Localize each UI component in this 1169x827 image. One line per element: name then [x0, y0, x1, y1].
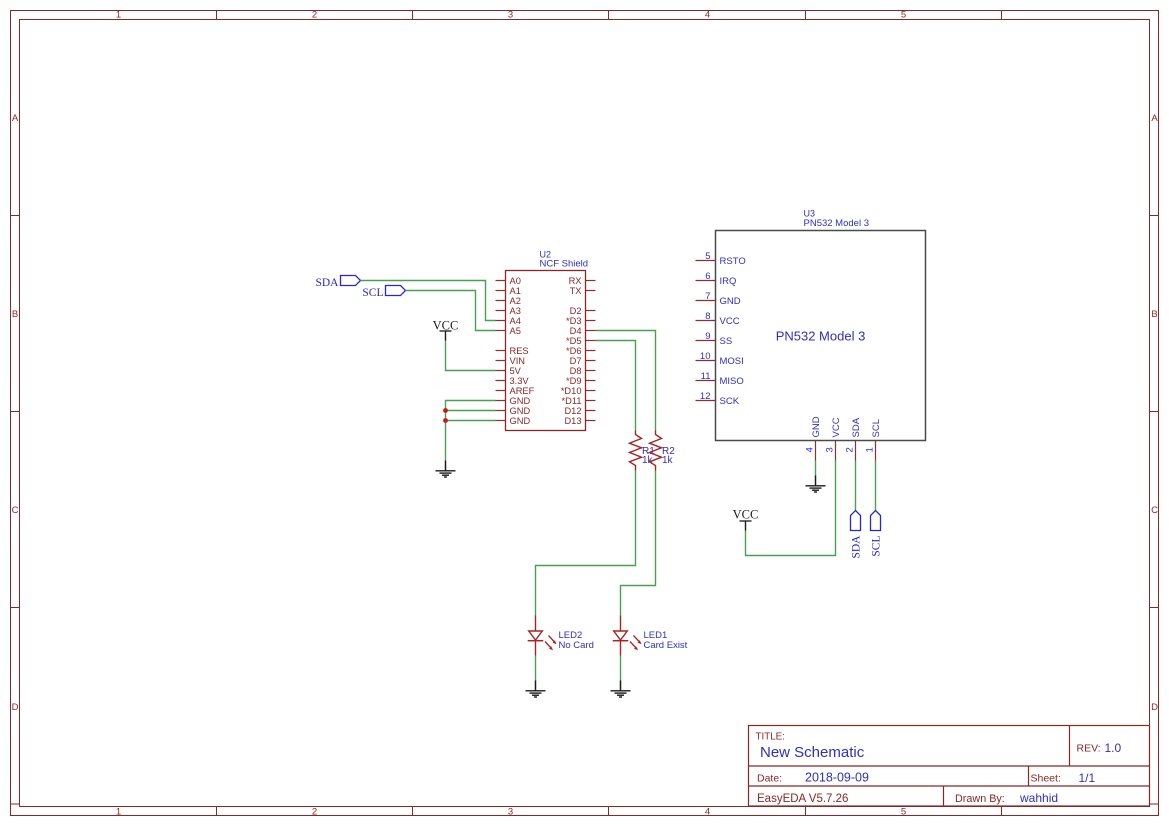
- U2 pin RES (left, y=350): [496, 346, 529, 356]
- svg-text:MISO: MISO: [720, 376, 744, 387]
- U2 pin *D5 (right, y=340): [566, 336, 596, 346]
- svg-text:SDA: SDA: [851, 417, 862, 437]
- wire U3 pin3 VCC to VCC symbol: [746, 461, 836, 556]
- wire U3 pin2 to SDA flag: [855, 461, 857, 511]
- svg-text:VCC: VCC: [733, 508, 759, 522]
- svg-text:3.3V: 3.3V: [510, 376, 530, 386]
- svg-text:D8: D8: [570, 366, 582, 376]
- U2 pin *D3 (right, y=320): [566, 316, 596, 326]
- svg-text:SDA: SDA: [315, 277, 339, 289]
- svg-text:5: 5: [901, 10, 906, 21]
- U2 pin D13 (right, y=420): [564, 416, 595, 426]
- U3 pin 1 SCL (bottom): [865, 419, 883, 460]
- IC U3 PN532 Model 3 body: [716, 209, 926, 441]
- U2 pin *D9 (right, y=380): [566, 376, 596, 386]
- resistor R2 1k: [650, 431, 676, 471]
- U3 pin 4 GND (bottom): [805, 416, 823, 460]
- ground (U3 pin4): [806, 476, 826, 493]
- svg-text:2018-09-09: 2018-09-09: [805, 771, 869, 785]
- wire SCL flag to U2.A5: [406, 291, 496, 331]
- svg-text:Drawn By:: Drawn By:: [955, 793, 1005, 805]
- svg-text:No Card: No Card: [559, 640, 594, 651]
- U2 pin A3 (left, y=310): [496, 306, 521, 316]
- svg-text:12: 12: [700, 391, 711, 402]
- svg-text:A: A: [12, 113, 19, 124]
- U2 pin 5V (left, y=370): [496, 366, 522, 376]
- svg-text:GND: GND: [811, 416, 822, 437]
- LED LED1 (Card Exist): [613, 616, 688, 656]
- svg-text:9: 9: [705, 331, 710, 342]
- svg-text:VCC: VCC: [720, 316, 740, 327]
- power flag VCC (near U2): [433, 319, 459, 341]
- svg-text:A4: A4: [510, 316, 521, 326]
- svg-text:1/1: 1/1: [1079, 771, 1096, 785]
- resistor R1 1k: [630, 431, 656, 471]
- LED LED2 (No Card): [528, 616, 594, 656]
- junction at (445,420): [443, 418, 448, 423]
- svg-text:*D9: *D9: [566, 376, 582, 386]
- svg-text:A2: A2: [510, 296, 521, 306]
- wire U3 pin4 GND to ground: [815, 461, 817, 476]
- svg-text:2: 2: [845, 447, 856, 452]
- U3 pin 6 IRQ: [696, 271, 737, 287]
- svg-text:PN532 Model 3: PN532 Model 3: [804, 218, 869, 229]
- wire U2.GND top to ground bus: [446, 401, 496, 461]
- junction at (445,410): [443, 408, 448, 413]
- svg-text:11: 11: [701, 371, 711, 382]
- svg-text:SCL: SCL: [871, 536, 883, 557]
- U2 pin A5 (left, y=330): [496, 326, 521, 336]
- svg-text:5: 5: [901, 807, 906, 818]
- svg-text:D13: D13: [564, 416, 581, 426]
- svg-text:Date:: Date:: [757, 773, 782, 785]
- svg-text:EasyEDA V5.7.26: EasyEDA V5.7.26: [757, 793, 848, 805]
- svg-text:6: 6: [705, 271, 710, 282]
- net flag SDA (below U3): [851, 511, 863, 559]
- wire LED1 cathode to ground: [620, 656, 622, 681]
- svg-text:SCL: SCL: [871, 419, 882, 437]
- svg-text:IRQ: IRQ: [720, 276, 737, 287]
- U2 pin AREF (left, y=390): [496, 386, 535, 396]
- svg-text:GND: GND: [510, 406, 531, 416]
- U2 pin TX (right, y=290): [570, 286, 596, 296]
- svg-text:*D11: *D11: [562, 396, 582, 406]
- svg-text:TITLE:: TITLE:: [756, 732, 785, 743]
- wire R2 bottom to LED1 anode: [621, 471, 656, 616]
- svg-text:RSTO: RSTO: [720, 256, 746, 267]
- svg-text:4: 4: [805, 447, 816, 452]
- svg-text:5: 5: [705, 251, 710, 262]
- svg-text:SS: SS: [720, 336, 733, 347]
- svg-text:Card Exist: Card Exist: [644, 640, 688, 651]
- svg-text:VCC: VCC: [831, 417, 842, 437]
- svg-text:GND: GND: [510, 416, 531, 426]
- U3 pin 2 SDA (bottom): [845, 417, 863, 460]
- svg-text:7: 7: [705, 291, 710, 302]
- svg-text:5V: 5V: [510, 366, 522, 376]
- U2 pin D7 (right, y=360): [570, 356, 596, 366]
- ground (U2 GND bus): [436, 461, 456, 478]
- U3 pin 8 VCC: [696, 311, 740, 327]
- svg-text:AREF: AREF: [510, 386, 535, 396]
- U2 pin D2 (right, y=310): [570, 306, 596, 316]
- svg-text:TX: TX: [570, 286, 582, 296]
- U3 pin 11 MISO: [696, 371, 744, 387]
- U2 pin A0 (left, y=280): [496, 276, 521, 286]
- svg-text:1: 1: [116, 10, 121, 21]
- svg-text:D4: D4: [570, 326, 582, 336]
- U2 pin GND (left, y=420): [496, 416, 531, 426]
- svg-text:B: B: [1151, 309, 1157, 320]
- U2 pin RX (right, y=280): [569, 276, 596, 286]
- svg-text:NCF Shield: NCF Shield: [540, 259, 589, 270]
- svg-text:D: D: [1151, 702, 1158, 713]
- svg-text:REV:: REV:: [1077, 743, 1101, 755]
- svg-text:10: 10: [700, 351, 711, 362]
- U3 pin 10 MOSI: [696, 351, 744, 367]
- svg-text:Sheet:: Sheet:: [1031, 773, 1061, 785]
- svg-text:2: 2: [312, 807, 317, 818]
- U3 pin 5 RSTO: [696, 251, 746, 267]
- U2 pin *D6 (right, y=350): [566, 346, 596, 356]
- svg-text:SCK: SCK: [720, 396, 740, 407]
- U2 pin GND (left, y=410): [496, 406, 531, 416]
- svg-text:D: D: [12, 702, 19, 713]
- svg-text:4: 4: [705, 10, 710, 21]
- wire LED2 cathode to ground: [535, 656, 537, 681]
- svg-text:*D5: *D5: [566, 336, 582, 346]
- svg-text:A: A: [1151, 113, 1158, 124]
- svg-text:1: 1: [116, 807, 121, 818]
- wire SDA flag to U2.A4: [361, 281, 496, 321]
- wire U2.D4 to R2 top: [596, 331, 656, 431]
- wire VCC to U2.5V: [446, 341, 496, 371]
- wire U2.*D5 to R1 top: [596, 341, 636, 431]
- svg-text:SDA: SDA: [851, 535, 863, 559]
- svg-text:2: 2: [312, 10, 317, 21]
- wire U2.GND mid: [446, 410, 496, 412]
- U2 pin A1 (left, y=290): [496, 286, 521, 296]
- IC U2 NCF Shield body: [506, 250, 589, 431]
- svg-text:RES: RES: [510, 346, 529, 356]
- svg-text:SCL: SCL: [362, 287, 383, 299]
- U2 pin A2 (left, y=300): [496, 296, 521, 306]
- svg-text:A1: A1: [510, 286, 521, 296]
- svg-text:A5: A5: [510, 326, 521, 336]
- net flag SDA (left): [315, 276, 360, 290]
- svg-text:3: 3: [508, 10, 513, 21]
- ground (LED1): [611, 681, 631, 698]
- svg-text:B: B: [12, 309, 18, 320]
- U2 pin *D10 (right, y=390): [561, 386, 596, 396]
- svg-text:PN532 Model 3: PN532 Model 3: [776, 329, 866, 344]
- U3 pin 7 GND: [696, 291, 741, 307]
- svg-text:1k: 1k: [662, 455, 674, 466]
- U3 pin 3 VCC (bottom): [825, 417, 843, 460]
- svg-text:RX: RX: [569, 276, 582, 286]
- svg-text:wahhid: wahhid: [1019, 791, 1058, 805]
- power flag VCC (near U3): [733, 508, 759, 531]
- svg-text:*D3: *D3: [566, 316, 582, 326]
- svg-text:3: 3: [508, 807, 513, 818]
- svg-text:C: C: [12, 505, 19, 516]
- U2 pin VIN (left, y=360): [496, 356, 526, 366]
- svg-text:*D10: *D10: [561, 386, 582, 396]
- svg-text:*D6: *D6: [566, 346, 582, 356]
- U3 pin 12 SCK: [696, 391, 740, 407]
- svg-text:4: 4: [705, 807, 710, 818]
- net flag SCL (below U3): [871, 511, 883, 557]
- svg-text:U3: U3: [804, 209, 816, 219]
- svg-text:D2: D2: [570, 306, 582, 316]
- wire U3 pin1 to SCL flag: [875, 461, 877, 511]
- U2 pin D12 (right, y=410): [564, 406, 595, 416]
- wire R1 bottom to LED2 anode: [536, 471, 636, 616]
- U2 pin D4 (right, y=330): [570, 326, 596, 336]
- wire U2.GND bottom: [446, 420, 496, 422]
- svg-text:GND: GND: [720, 296, 741, 307]
- svg-text:D7: D7: [570, 356, 582, 366]
- svg-text:VIN: VIN: [510, 356, 526, 366]
- svg-text:A0: A0: [510, 276, 521, 286]
- U2 pin GND (left, y=400): [496, 396, 531, 406]
- svg-text:3: 3: [825, 447, 836, 452]
- title block: [749, 726, 1150, 807]
- svg-text:D12: D12: [564, 406, 581, 416]
- svg-text:1.0: 1.0: [1105, 741, 1122, 755]
- U2 pin 3.3V (left, y=380): [496, 376, 530, 386]
- ground (LED2): [526, 681, 546, 698]
- U2 pin *D11 (right, y=400): [562, 396, 596, 406]
- svg-text:A3: A3: [510, 306, 521, 316]
- U3 pin 9 SS: [696, 331, 733, 347]
- svg-text:New Schematic: New Schematic: [760, 744, 865, 761]
- svg-text:GND: GND: [510, 396, 531, 406]
- U2 pin A4 (left, y=320): [496, 316, 521, 326]
- svg-text:1: 1: [865, 447, 876, 452]
- net flag SCL (left): [362, 286, 405, 300]
- svg-text:MOSI: MOSI: [720, 356, 744, 367]
- svg-text:8: 8: [705, 311, 710, 322]
- U2 pin D8 (right, y=370): [570, 366, 596, 376]
- svg-text:C: C: [1151, 505, 1158, 516]
